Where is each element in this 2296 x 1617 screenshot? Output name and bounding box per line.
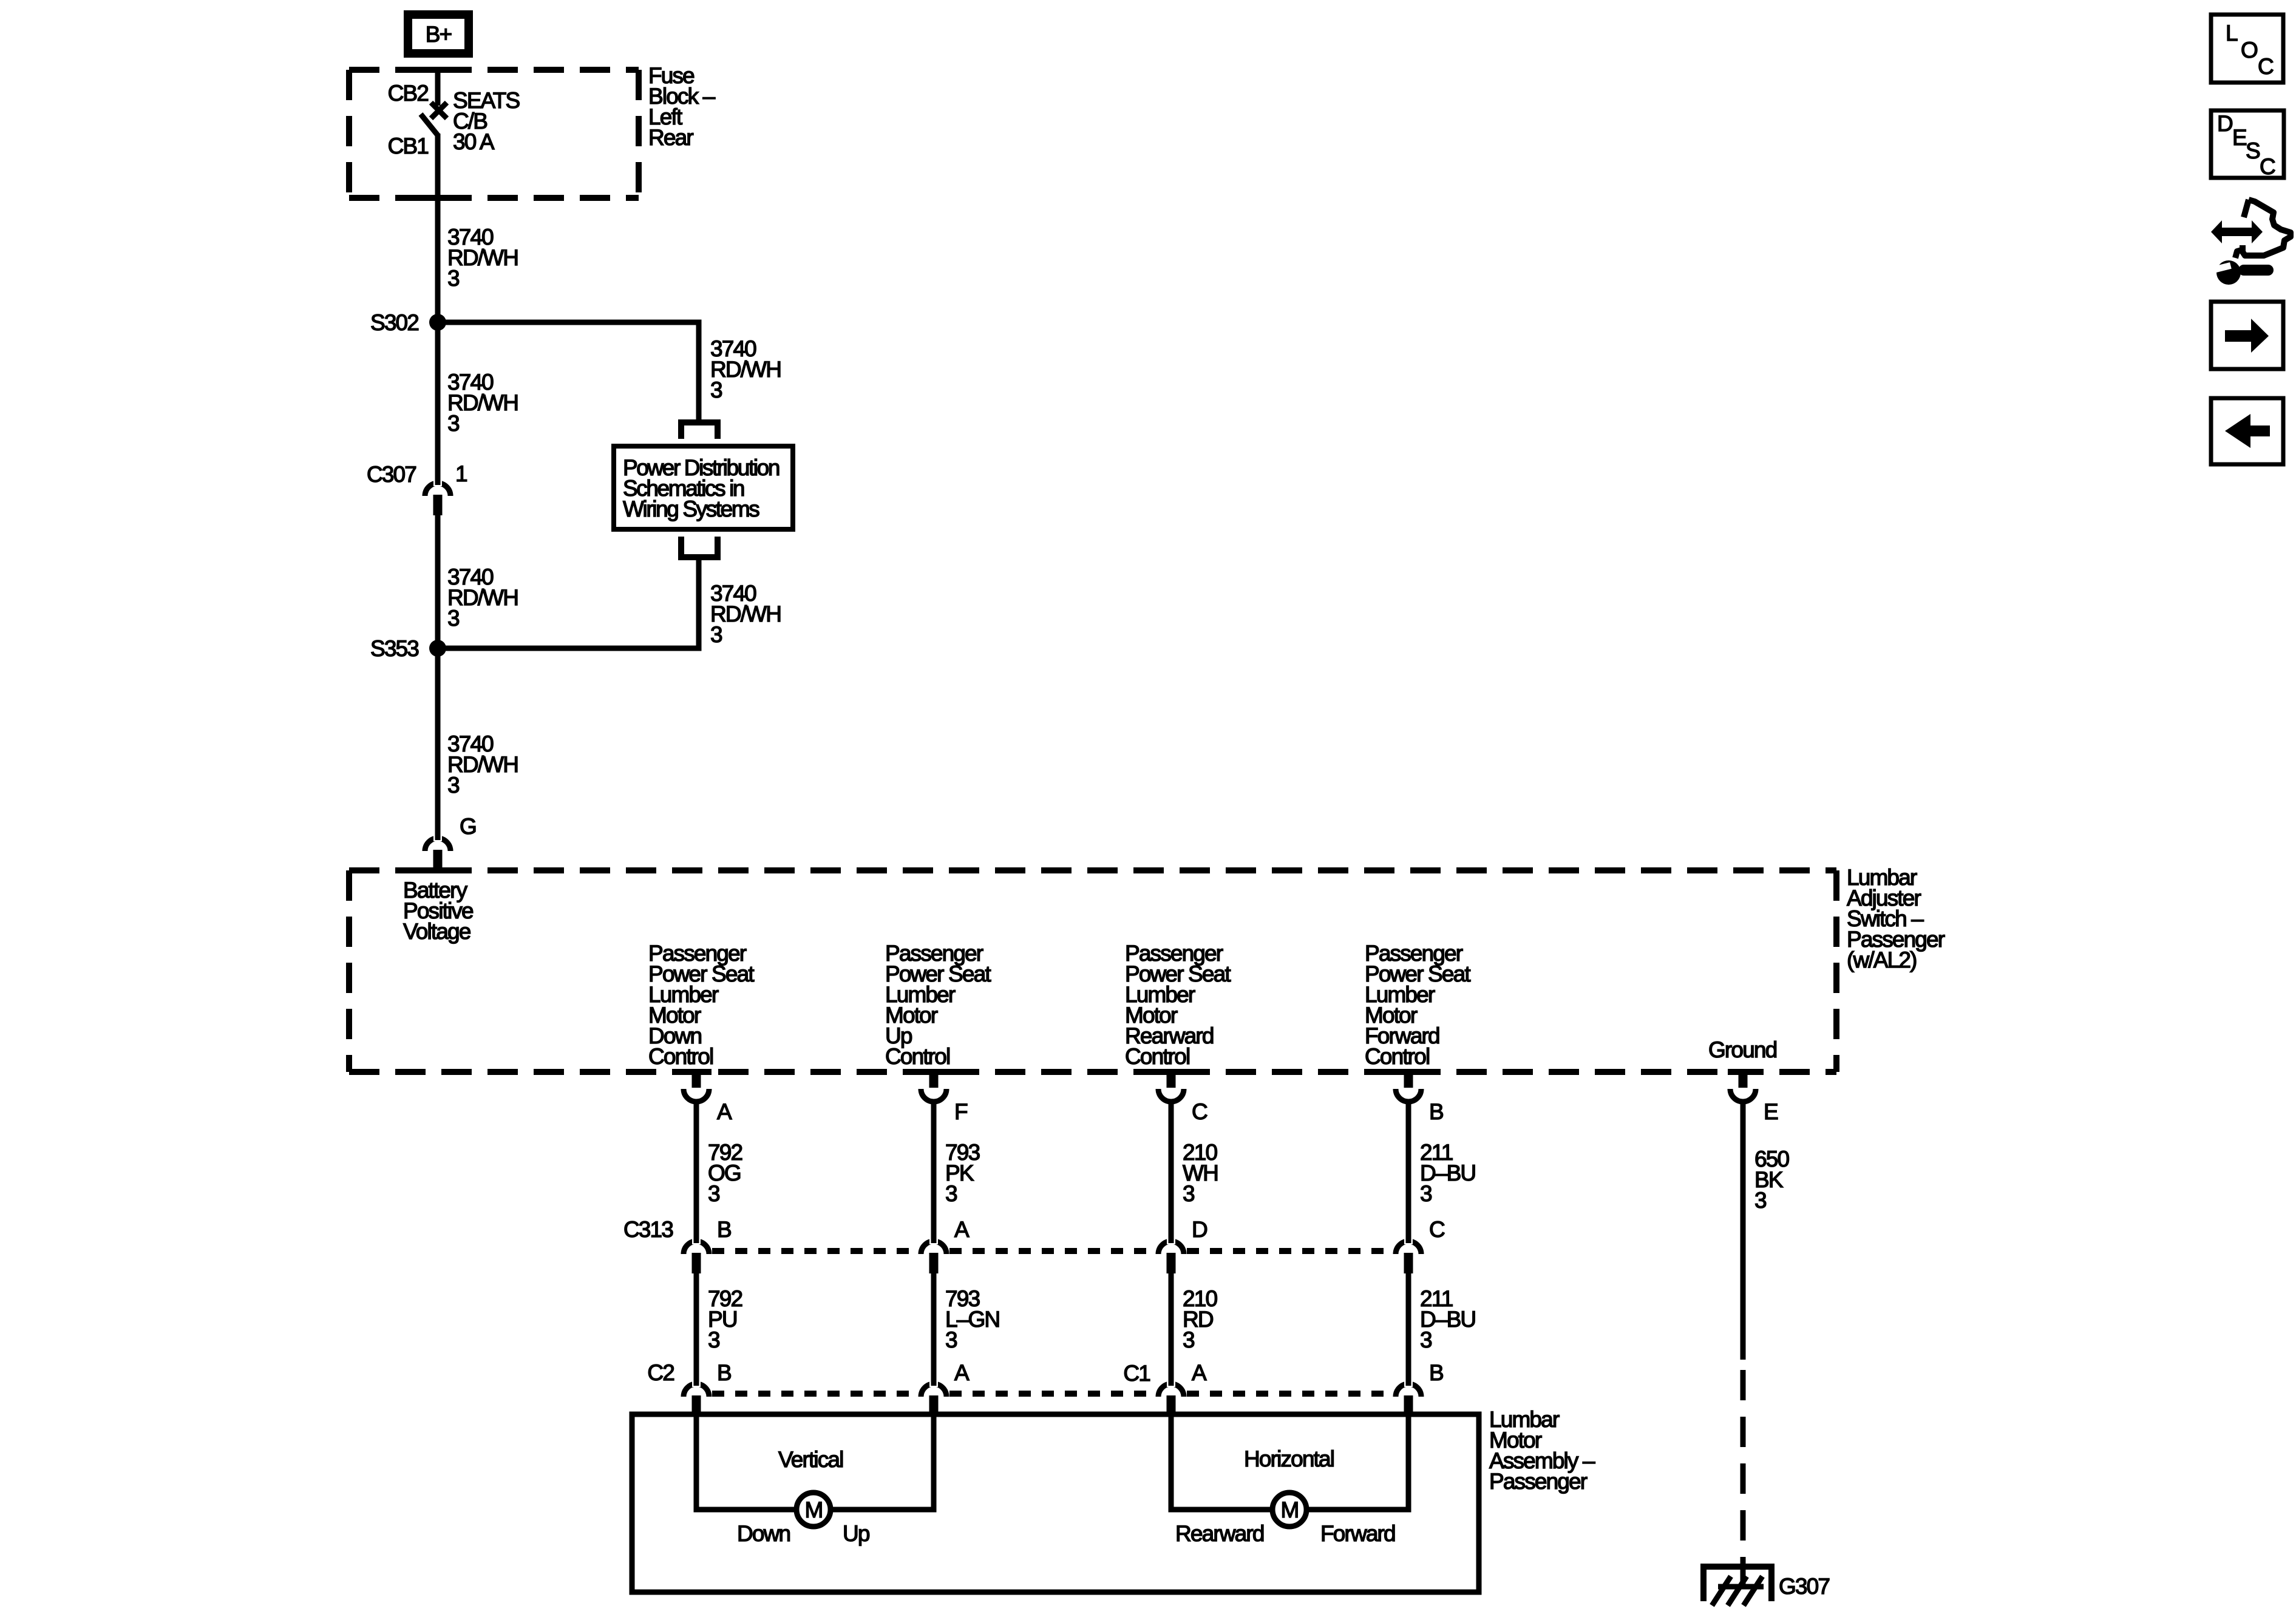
switch connector pin F bbox=[929, 1070, 939, 1088]
svg-text:Wiring Systems: Wiring Systems bbox=[623, 497, 759, 521]
svg-text:O: O bbox=[2241, 38, 2258, 63]
svg-text:D: D bbox=[1192, 1217, 1207, 1242]
wire S302 branch right to Power Distribution reference, 3740 RD/WH 3 bbox=[438, 322, 699, 419]
off-page connector bracket (bottom) bbox=[681, 537, 718, 557]
svg-text:Up: Up bbox=[843, 1521, 870, 1546]
helper dashes where pins cross switch box edges bbox=[423, 867, 1758, 1075]
label SEATS C/B 30 A bbox=[453, 88, 519, 154]
wire pin to C313, circuit 210 WH 3 bbox=[1183, 1140, 1218, 1206]
svg-text:Voltage: Voltage bbox=[403, 919, 470, 944]
fuse block dashed outline bbox=[349, 70, 639, 198]
svg-text:B: B bbox=[1429, 1099, 1443, 1124]
svg-text:Down: Down bbox=[737, 1521, 790, 1546]
switch name label: Lumbar Adjuster Switch - Passenger (w/AL2) bbox=[1847, 865, 1945, 972]
svg-text:Control: Control bbox=[1365, 1044, 1429, 1069]
wire pin to C313, circuit 792 OG 3 bbox=[708, 1140, 742, 1206]
svg-text:Control: Control bbox=[1125, 1044, 1189, 1069]
svg-text:(w/AL2): (w/AL2) bbox=[1847, 947, 1917, 972]
fuse block label: Fuse Block - Left Rear bbox=[648, 63, 716, 150]
motor assembly name label bbox=[1489, 1407, 1595, 1494]
svg-text:3: 3 bbox=[710, 622, 722, 647]
svg-text:Forward: Forward bbox=[1320, 1521, 1395, 1546]
svg-text:M: M bbox=[1281, 1497, 1299, 1522]
switch connector pin A bbox=[692, 1070, 701, 1088]
switch internal label: Passenger Power Seat Lumber Motor Rearward Control bbox=[1125, 941, 1231, 1069]
svg-text:M: M bbox=[805, 1497, 823, 1522]
svg-text:Horizontal: Horizontal bbox=[1244, 1446, 1334, 1471]
motor connector pin A bbox=[1158, 1384, 1184, 1397]
wire C313 to motor connector, circuit 793 L–GN 3 bbox=[945, 1286, 999, 1352]
vertical motor loop wiring bbox=[696, 1414, 798, 1510]
connector pin G into Lumbar Adjuster Switch bbox=[425, 838, 450, 851]
svg-text:Rearward: Rearward bbox=[1175, 1521, 1264, 1546]
svg-text:3: 3 bbox=[447, 411, 459, 436]
svg-text:A: A bbox=[1192, 1360, 1207, 1385]
motor connector pin B bbox=[684, 1384, 709, 1397]
dashed continuation of ground wire bbox=[1741, 1360, 1746, 1565]
wire CB1 down to S302, circuit 3740 RD/WH 3 bbox=[435, 134, 441, 322]
wire B+ into fuse block to CB2 terminal bbox=[435, 69, 441, 106]
svg-text:B: B bbox=[1429, 1360, 1443, 1385]
svg-text:C: C bbox=[2258, 54, 2274, 79]
svg-text:Rear: Rear bbox=[648, 125, 693, 150]
switch internal label: Battery Positive Voltage bbox=[403, 878, 473, 944]
svg-text:E: E bbox=[2232, 125, 2247, 150]
svg-text:F: F bbox=[954, 1099, 968, 1124]
svg-text:3: 3 bbox=[447, 606, 459, 631]
svg-text:B: B bbox=[717, 1360, 731, 1385]
svg-text:A: A bbox=[954, 1217, 970, 1242]
horizontal motor loop wiring bbox=[1171, 1414, 1274, 1510]
motor connectors C2 and C1 dashed tie line bbox=[712, 1391, 1393, 1397]
svg-text:C: C bbox=[1429, 1217, 1445, 1242]
svg-text:E: E bbox=[1764, 1099, 1778, 1124]
icon: previous page (left arrow) box bbox=[2211, 398, 2283, 464]
wire Power Distribution down to S353, 3740 RD/WH 3 bbox=[438, 557, 699, 648]
splice node S353 bbox=[429, 640, 446, 657]
svg-text:S353: S353 bbox=[370, 636, 418, 661]
svg-text:D: D bbox=[2217, 111, 2232, 136]
wire C307 to S353, 3740 RD/WH 3 bbox=[435, 515, 441, 648]
motor M (vertical) bbox=[796, 1493, 830, 1527]
icon: diagnostic jump (double arrow, part outline, wrench) bbox=[2211, 200, 2291, 285]
svg-text:S: S bbox=[2246, 138, 2260, 163]
connector C307 pin 1 bbox=[425, 483, 450, 496]
svg-text:C1: C1 bbox=[1123, 1361, 1150, 1386]
svg-text:3: 3 bbox=[447, 773, 459, 798]
power feed node B+ bbox=[408, 15, 469, 53]
circuit breaker contact X mark (CB2 terminal) bbox=[431, 103, 447, 118]
svg-text:3: 3 bbox=[1420, 1181, 1432, 1206]
helper dash at wire crossings of fuse block edges bbox=[423, 67, 453, 201]
svg-text:C: C bbox=[1192, 1099, 1207, 1124]
switch internal label: Passenger Power Seat Lumber Motor Up Control bbox=[885, 941, 991, 1069]
wire pin E to ground, circuit 650 BK 3 bbox=[1741, 1102, 1746, 1360]
svg-text:CB1: CB1 bbox=[388, 134, 429, 158]
svg-text:3: 3 bbox=[708, 1327, 719, 1352]
svg-text:Ground: Ground bbox=[1708, 1037, 1777, 1062]
svg-text:A: A bbox=[954, 1360, 970, 1385]
svg-text:B+: B+ bbox=[426, 22, 452, 47]
switch connector pin B bbox=[1404, 1070, 1413, 1088]
connector C313 pin B bbox=[684, 1241, 709, 1254]
Lumbar Motor Assembly - Passenger box bbox=[632, 1414, 1479, 1592]
motor M (horizontal) bbox=[1272, 1493, 1306, 1527]
svg-text:Control: Control bbox=[885, 1044, 949, 1069]
svg-text:B: B bbox=[717, 1217, 731, 1242]
svg-text:G307: G307 bbox=[1779, 1574, 1829, 1599]
svg-text:L: L bbox=[2226, 21, 2238, 46]
wire S302 down to connector C307, 3740 RD/WH 3 bbox=[447, 370, 518, 436]
svg-text:3: 3 bbox=[708, 1181, 719, 1206]
in-line connector C313 dashed tie line bbox=[712, 1248, 1393, 1254]
switch connector pin E bbox=[1739, 1070, 1748, 1088]
svg-text:G: G bbox=[460, 814, 476, 839]
svg-text:1: 1 bbox=[455, 461, 467, 486]
Power Distribution Schematics reference box bbox=[614, 446, 793, 529]
connector C313 pin C bbox=[1396, 1241, 1421, 1254]
wire C313 to motor connector, circuit 792 PU 3 bbox=[708, 1286, 742, 1352]
svg-text:S302: S302 bbox=[370, 310, 418, 335]
connector C313 pin D bbox=[1158, 1241, 1184, 1254]
icon: next page (right arrow) box bbox=[2211, 302, 2283, 369]
circuit breaker blade CB2 to CB1 bbox=[421, 114, 438, 136]
svg-text:3: 3 bbox=[710, 378, 722, 402]
svg-text:3: 3 bbox=[945, 1181, 957, 1206]
wire S353 down to switch pin G, 3740 RD/WH 3 bbox=[447, 731, 518, 798]
ground G307 symbol bbox=[1703, 1565, 1771, 1605]
switch internal label: Passenger Power Seat Lumber Motor Forward Control bbox=[1365, 941, 1471, 1069]
svg-text:3: 3 bbox=[447, 266, 459, 291]
svg-text:30 A: 30 A bbox=[453, 129, 495, 154]
svg-text:CB2: CB2 bbox=[388, 81, 429, 106]
svg-text:3: 3 bbox=[1183, 1181, 1194, 1206]
svg-text:3: 3 bbox=[945, 1327, 957, 1352]
svg-text:A: A bbox=[717, 1099, 732, 1124]
svg-text:C313: C313 bbox=[623, 1217, 673, 1242]
svg-text:Control: Control bbox=[648, 1044, 713, 1069]
off-page connector bracket (top) bbox=[681, 422, 718, 439]
splice node S302 bbox=[429, 314, 446, 331]
svg-text:3: 3 bbox=[1183, 1327, 1194, 1352]
svg-text:C307: C307 bbox=[367, 462, 416, 487]
switch internal label: Passenger Power Seat Lumber Motor Down Control bbox=[648, 941, 755, 1069]
icon: LOC box bbox=[2211, 15, 2283, 83]
wire C313 to motor connector, circuit 211 D–BU 3 bbox=[1420, 1286, 1475, 1352]
svg-text:Vertical: Vertical bbox=[778, 1447, 843, 1472]
svg-text:C2: C2 bbox=[647, 1360, 674, 1385]
svg-text:C: C bbox=[2260, 154, 2275, 179]
motor connector pin A bbox=[921, 1384, 946, 1397]
wire pin to C313, circuit 211 D–BU 3 bbox=[1420, 1140, 1475, 1206]
switch connector pin C bbox=[1167, 1070, 1176, 1088]
icon: DESC box bbox=[2211, 110, 2284, 179]
wire C313 to motor connector, circuit 210 RD 3 bbox=[1183, 1286, 1217, 1352]
svg-text:3: 3 bbox=[1754, 1188, 1766, 1213]
wire pin to C313, circuit 793 PK 3 bbox=[945, 1140, 979, 1206]
connector C313 pin A bbox=[921, 1241, 946, 1254]
Lumbar Adjuster Switch - Passenger dashed outline bbox=[349, 870, 1836, 1072]
svg-text:Passenger: Passenger bbox=[1489, 1469, 1588, 1494]
svg-text:3: 3 bbox=[1420, 1327, 1432, 1352]
motor connector pin B bbox=[1396, 1384, 1421, 1397]
